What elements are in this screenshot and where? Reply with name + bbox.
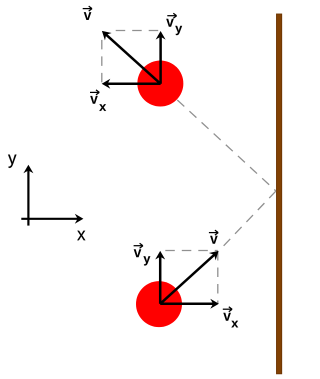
ball before bounce (bottom) [136,281,182,327]
label v (top) [83,6,92,20]
dashed component rectangle (bottom): top edge [165,250,218,252]
trajectory dashed line (wall to bottom ball) [220,191,276,250]
dashed component rectangle (top): left edge [101,40,103,84]
label y (axis) [8,155,16,168]
vector v (bottom, diagonal up-right) [160,247,222,304]
vector v (top, diagonal up-left) [99,27,161,84]
ball after bounce (top) [137,60,183,106]
coordinate axis x (horizontal, arrow right) [21,214,83,224]
label x (axis) [77,231,85,241]
wall [277,14,282,374]
label v_y (top) [166,13,182,35]
label v_x (bottom) [223,307,238,328]
label v_x (top) [90,90,106,111]
label v_y (bottom) [134,243,151,265]
vector v_x (top, left) [102,79,161,89]
vector v_y (bottom, up) [155,251,165,304]
dashed component rectangle (bottom): right edge [217,251,219,304]
dashed component rectangle (top): top edge [116,30,161,32]
vector v_y (top, up) [156,31,166,84]
label v (bottom) [209,230,218,244]
vector v_x (bottom, right) [160,299,219,309]
coordinate axis y (vertical, arrow up) [23,165,33,226]
trajectory dashed line (top ball to wall) [177,100,275,191]
